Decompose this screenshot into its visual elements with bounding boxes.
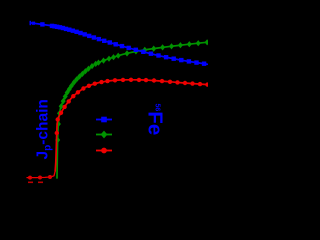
red tick mark text 2 <box>38 182 43 184</box>
blue curve first small marker <box>32 22 35 25</box>
blue curve square markers <box>40 22 206 66</box>
green curve diamond markers <box>55 39 209 143</box>
red curve line <box>55 80 208 171</box>
blue curve start tick <box>29 21 31 25</box>
legend entry blue square marker <box>101 117 107 123</box>
legend entry green diamond marker <box>101 131 108 139</box>
legend entry red line <box>96 150 112 152</box>
legend entry blue line <box>96 119 112 121</box>
red curve circle markers <box>55 78 210 136</box>
red tick mark text 1 <box>28 182 33 184</box>
legend entry red circle marker <box>101 148 107 154</box>
blue curve line <box>30 23 208 65</box>
green curve line <box>57 42 208 178</box>
legend entry green line <box>96 134 112 136</box>
red curve flat tail line <box>27 171 55 178</box>
red tail circle markers <box>28 175 52 180</box>
